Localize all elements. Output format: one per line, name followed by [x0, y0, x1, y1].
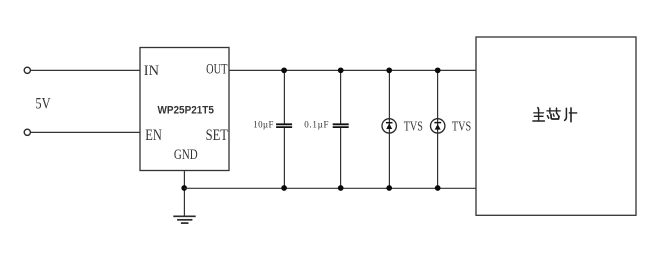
label 5V: [35, 95, 51, 112]
wire P1 to IN: [31, 69, 140, 71]
node D2 bottom: [435, 185, 441, 191]
value label 10uF: [253, 120, 273, 130]
svg-text:EN: EN: [145, 127, 162, 144]
svg-text:IN: IN: [144, 63, 159, 79]
node GND junction: [181, 185, 187, 191]
svg-text:SET: SET: [206, 127, 229, 144]
svg-text:OUT: OUT: [206, 62, 227, 78]
svg-text:WP25P21T5: WP25P21T5: [158, 105, 214, 117]
node C1 bottom: [281, 185, 287, 191]
capacitor C1 wire lower: [283, 128, 285, 188]
wire P2 to EN: [31, 131, 140, 133]
wire OUT rail (top): [229, 69, 476, 71]
label main chip (zhu xin pian): [533, 108, 577, 122]
svg-text:GND: GND: [174, 147, 198, 163]
TVS diode D2 wire: [437, 70, 439, 188]
wire GND pin down: [183, 171, 185, 217]
node D2 top: [435, 67, 441, 73]
TVS diode D1: [382, 119, 396, 133]
svg-text:0.1µF: 0.1µF: [304, 120, 328, 130]
capacitor C2 plates: [333, 124, 349, 127]
value label 0.1uF: [304, 120, 328, 130]
node C1 top: [281, 67, 287, 73]
pin label GND: [174, 147, 198, 163]
regulator U1 WP25P21T5 box: [140, 48, 229, 171]
pin label IN: [144, 63, 159, 79]
svg-text:10µF: 10µF: [253, 120, 273, 130]
svg-text:5V: 5V: [35, 95, 51, 112]
main chip U2 box: [476, 37, 636, 215]
node D1 top: [386, 67, 392, 73]
terminal P1 (5V input top): [24, 67, 30, 73]
TVS diode D1 wire: [388, 70, 390, 188]
capacitor C1 plates: [276, 124, 292, 127]
wire ground rail (bottom): [184, 187, 476, 189]
TVS diode D2: [431, 119, 445, 133]
capacitor C1 wire upper: [283, 70, 285, 123]
capacitor C2 wire upper: [340, 70, 342, 123]
terminal P2 (5V input bottom): [24, 129, 30, 135]
pin label SET: [206, 127, 229, 144]
label TVS (D2): [452, 118, 471, 133]
label TVS (D1): [404, 118, 423, 133]
pin label EN: [145, 127, 162, 144]
node D1 bottom: [386, 185, 392, 191]
capacitor C2 wire lower: [340, 128, 342, 188]
svg-text:TVS: TVS: [452, 118, 471, 133]
node C2 bottom: [338, 185, 344, 191]
ground: [173, 216, 195, 223]
svg-text:TVS: TVS: [404, 118, 423, 133]
pin label OUT: [206, 62, 227, 78]
node C2 top: [338, 67, 344, 73]
value label WP25P21T5: [158, 105, 214, 117]
